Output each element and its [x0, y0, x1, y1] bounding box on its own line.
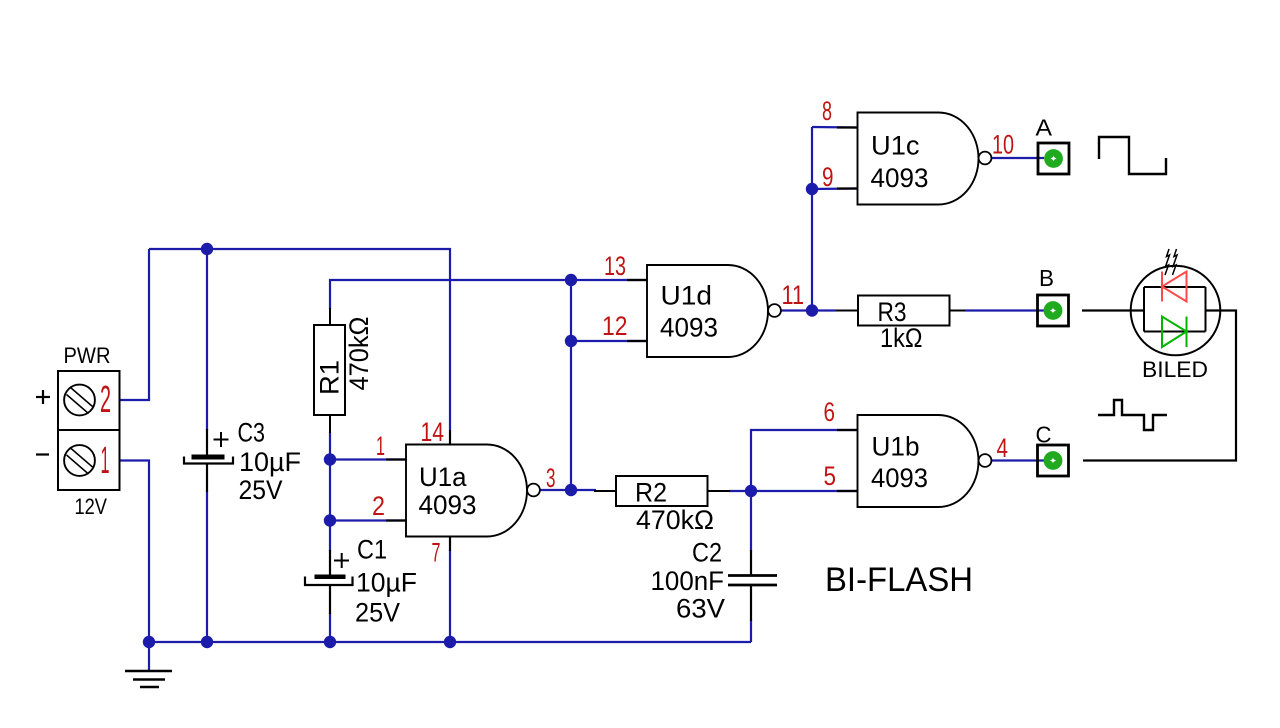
wire node to C2 — [750, 491, 752, 551]
wire C3 branch — [206, 249, 208, 430]
wire pin9 stub — [812, 187, 857, 190]
wire R1 bottom to node 1 — [329, 432, 331, 460]
terminal block PWR — [58, 371, 120, 490]
stub U1a pin1 — [386, 458, 406, 460]
wire node1 to C1 — [329, 460, 331, 552]
wire C2 to bottom bus — [750, 620, 752, 642]
node dot bus ground — [143, 636, 155, 648]
svg-text:U1d: U1d — [661, 281, 713, 311]
wire R3 right to B — [965, 309, 1044, 311]
svg-text:C3: C3 — [238, 418, 266, 448]
wire B to BILED — [1082, 309, 1144, 311]
svg-text:PWR: PWR — [64, 343, 111, 368]
wire U1b out to C — [992, 459, 1045, 461]
wire pin8 — [812, 126, 857, 129]
svg-text:C: C — [1036, 422, 1052, 448]
node dot pin12 — [565, 335, 577, 347]
diode red LED — [1162, 272, 1187, 302]
ground — [125, 671, 172, 687]
wire pin5 stub — [751, 490, 857, 492]
op-amp U1d NAND gate — [647, 265, 781, 357]
resistor R1 — [314, 308, 345, 433]
svg-text:R2: R2 — [635, 478, 667, 508]
terminal A — [1038, 143, 1069, 174]
stub U1a pin14 — [449, 430, 451, 445]
wire R2 left — [571, 489, 596, 491]
stub U1b pin6 — [837, 429, 857, 431]
svg-text:25V: 25V — [239, 475, 283, 505]
node dot R2 right — [745, 485, 757, 497]
svg-text:2: 2 — [100, 379, 111, 421]
wire BILED right to C — [1083, 311, 1236, 461]
svg-text:7: 7 — [432, 538, 441, 568]
wire ground stem — [148, 642, 150, 670]
stub U1c pin9 — [837, 187, 857, 189]
node dot pin2 — [324, 514, 336, 526]
svg-text:U1c: U1c — [871, 131, 920, 161]
wire pin12 stub — [571, 340, 647, 342]
svg-text:C1: C1 — [357, 535, 387, 565]
wire PWR+ to top bus — [119, 249, 149, 400]
wire top bus — [149, 249, 450, 430]
svg-text:10µF: 10µF — [356, 568, 417, 598]
svg-text:2: 2 — [372, 491, 385, 521]
svg-text:10µF: 10µF — [239, 447, 301, 477]
resistor R3 — [836, 296, 965, 326]
wire C1 to bottom bus — [329, 613, 331, 642]
stub U1b pin5 — [837, 490, 857, 492]
op-amp U1c NAND gate — [858, 113, 992, 205]
light emission arrows — [1165, 249, 1177, 275]
stub U1a pin2 — [386, 519, 406, 521]
wire pin2 stub — [330, 519, 406, 521]
minus sign PWR — [36, 453, 49, 455]
svg-text:1: 1 — [101, 440, 110, 482]
svg-text:4093: 4093 — [871, 163, 929, 193]
waveform C — [1098, 400, 1167, 430]
svg-text:C2: C2 — [692, 538, 722, 568]
node dot bus pin7 — [444, 636, 456, 648]
svg-text:U1b: U1b — [872, 432, 920, 462]
svg-text:12V: 12V — [75, 494, 108, 519]
svg-text:1: 1 — [376, 431, 385, 461]
svg-text:470kΩ: 470kΩ — [344, 317, 374, 391]
svg-text:25V: 25V — [355, 598, 400, 628]
op-amp U1a NAND gate — [406, 445, 540, 537]
svg-text:14: 14 — [421, 417, 445, 447]
node dot U1d out — [806, 304, 818, 316]
node dot bus C3 — [201, 636, 213, 648]
stub U1d pin13 — [627, 279, 647, 281]
wire C3 bottom — [206, 491, 208, 642]
svg-text:BILED: BILED — [1142, 357, 1208, 382]
wire bottom bus — [149, 641, 751, 643]
waveform A — [1099, 137, 1166, 174]
svg-text:10: 10 — [992, 130, 1014, 160]
wire R2 right to node — [729, 490, 751, 492]
svg-text:63V: 63V — [676, 594, 725, 624]
svg-text:4093: 4093 — [419, 490, 477, 520]
wire U1c out to A — [992, 157, 1045, 159]
node dot U1a out — [565, 484, 577, 496]
terminal B — [1038, 295, 1069, 326]
svg-text:3: 3 — [546, 463, 556, 493]
svg-text:4: 4 — [997, 433, 1009, 463]
wire U1d out — [781, 309, 812, 311]
svg-text:9: 9 — [822, 162, 834, 192]
black pin stubs — [386, 128, 857, 552]
node dot pin9 — [806, 183, 818, 195]
wire R1 top — [330, 280, 647, 309]
stub U1a pin7 — [449, 536, 451, 551]
svg-text:U1a: U1a — [419, 462, 467, 492]
node dot bus C1 — [324, 636, 336, 648]
stub U1c pin8 — [837, 126, 857, 128]
plus sign C1 — [334, 553, 349, 568]
svg-text:13: 13 — [604, 251, 626, 281]
svg-text:100nF: 100nF — [651, 566, 725, 596]
plus sign PWR — [36, 390, 50, 404]
op-amp U1b NAND gate — [858, 415, 992, 507]
stub U1d pin12 — [627, 340, 647, 342]
svg-text:1kΩ: 1kΩ — [880, 323, 923, 353]
capacitor C3 — [184, 429, 233, 492]
svg-text:11: 11 — [782, 280, 805, 310]
terminal C — [1038, 445, 1069, 476]
svg-text:BI-FLASH: BI-FLASH — [825, 561, 973, 599]
diode green LED — [1162, 317, 1187, 348]
svg-text:6: 6 — [824, 397, 836, 427]
svg-text:R1: R1 — [315, 360, 345, 395]
wire R3 left — [812, 309, 836, 311]
wire U1a out to R2 — [540, 489, 571, 491]
node dot pin13 — [565, 274, 577, 286]
svg-text:B: B — [1039, 265, 1054, 291]
capacitor C2 — [728, 550, 777, 621]
wire node to pin6 — [751, 430, 857, 491]
svg-text:4093: 4093 — [660, 313, 718, 343]
resistor R2 — [594, 476, 730, 506]
wire node3 vertical — [570, 280, 572, 490]
wire node11 vertical — [811, 127, 813, 311]
svg-text:12: 12 — [602, 311, 628, 341]
node dot R1/pin1 — [324, 453, 336, 465]
node dot top bus — [201, 243, 213, 255]
capacitor C1 — [305, 550, 353, 614]
svg-text:5: 5 — [824, 461, 837, 491]
svg-text:470kΩ: 470kΩ — [636, 505, 714, 535]
screw terminal 2 — [64, 385, 95, 416]
screw terminal 1 — [64, 445, 95, 476]
LED BILED — [1131, 266, 1221, 356]
wire pin1 stub — [330, 458, 406, 460]
svg-text:8: 8 — [822, 96, 832, 126]
svg-text:A: A — [1036, 115, 1053, 141]
plus sign C3 — [214, 432, 229, 447]
wire U1a pin7 — [449, 550, 451, 642]
svg-text:4093: 4093 — [871, 463, 928, 493]
wire PWR- to bottom bus — [119, 461, 149, 643]
